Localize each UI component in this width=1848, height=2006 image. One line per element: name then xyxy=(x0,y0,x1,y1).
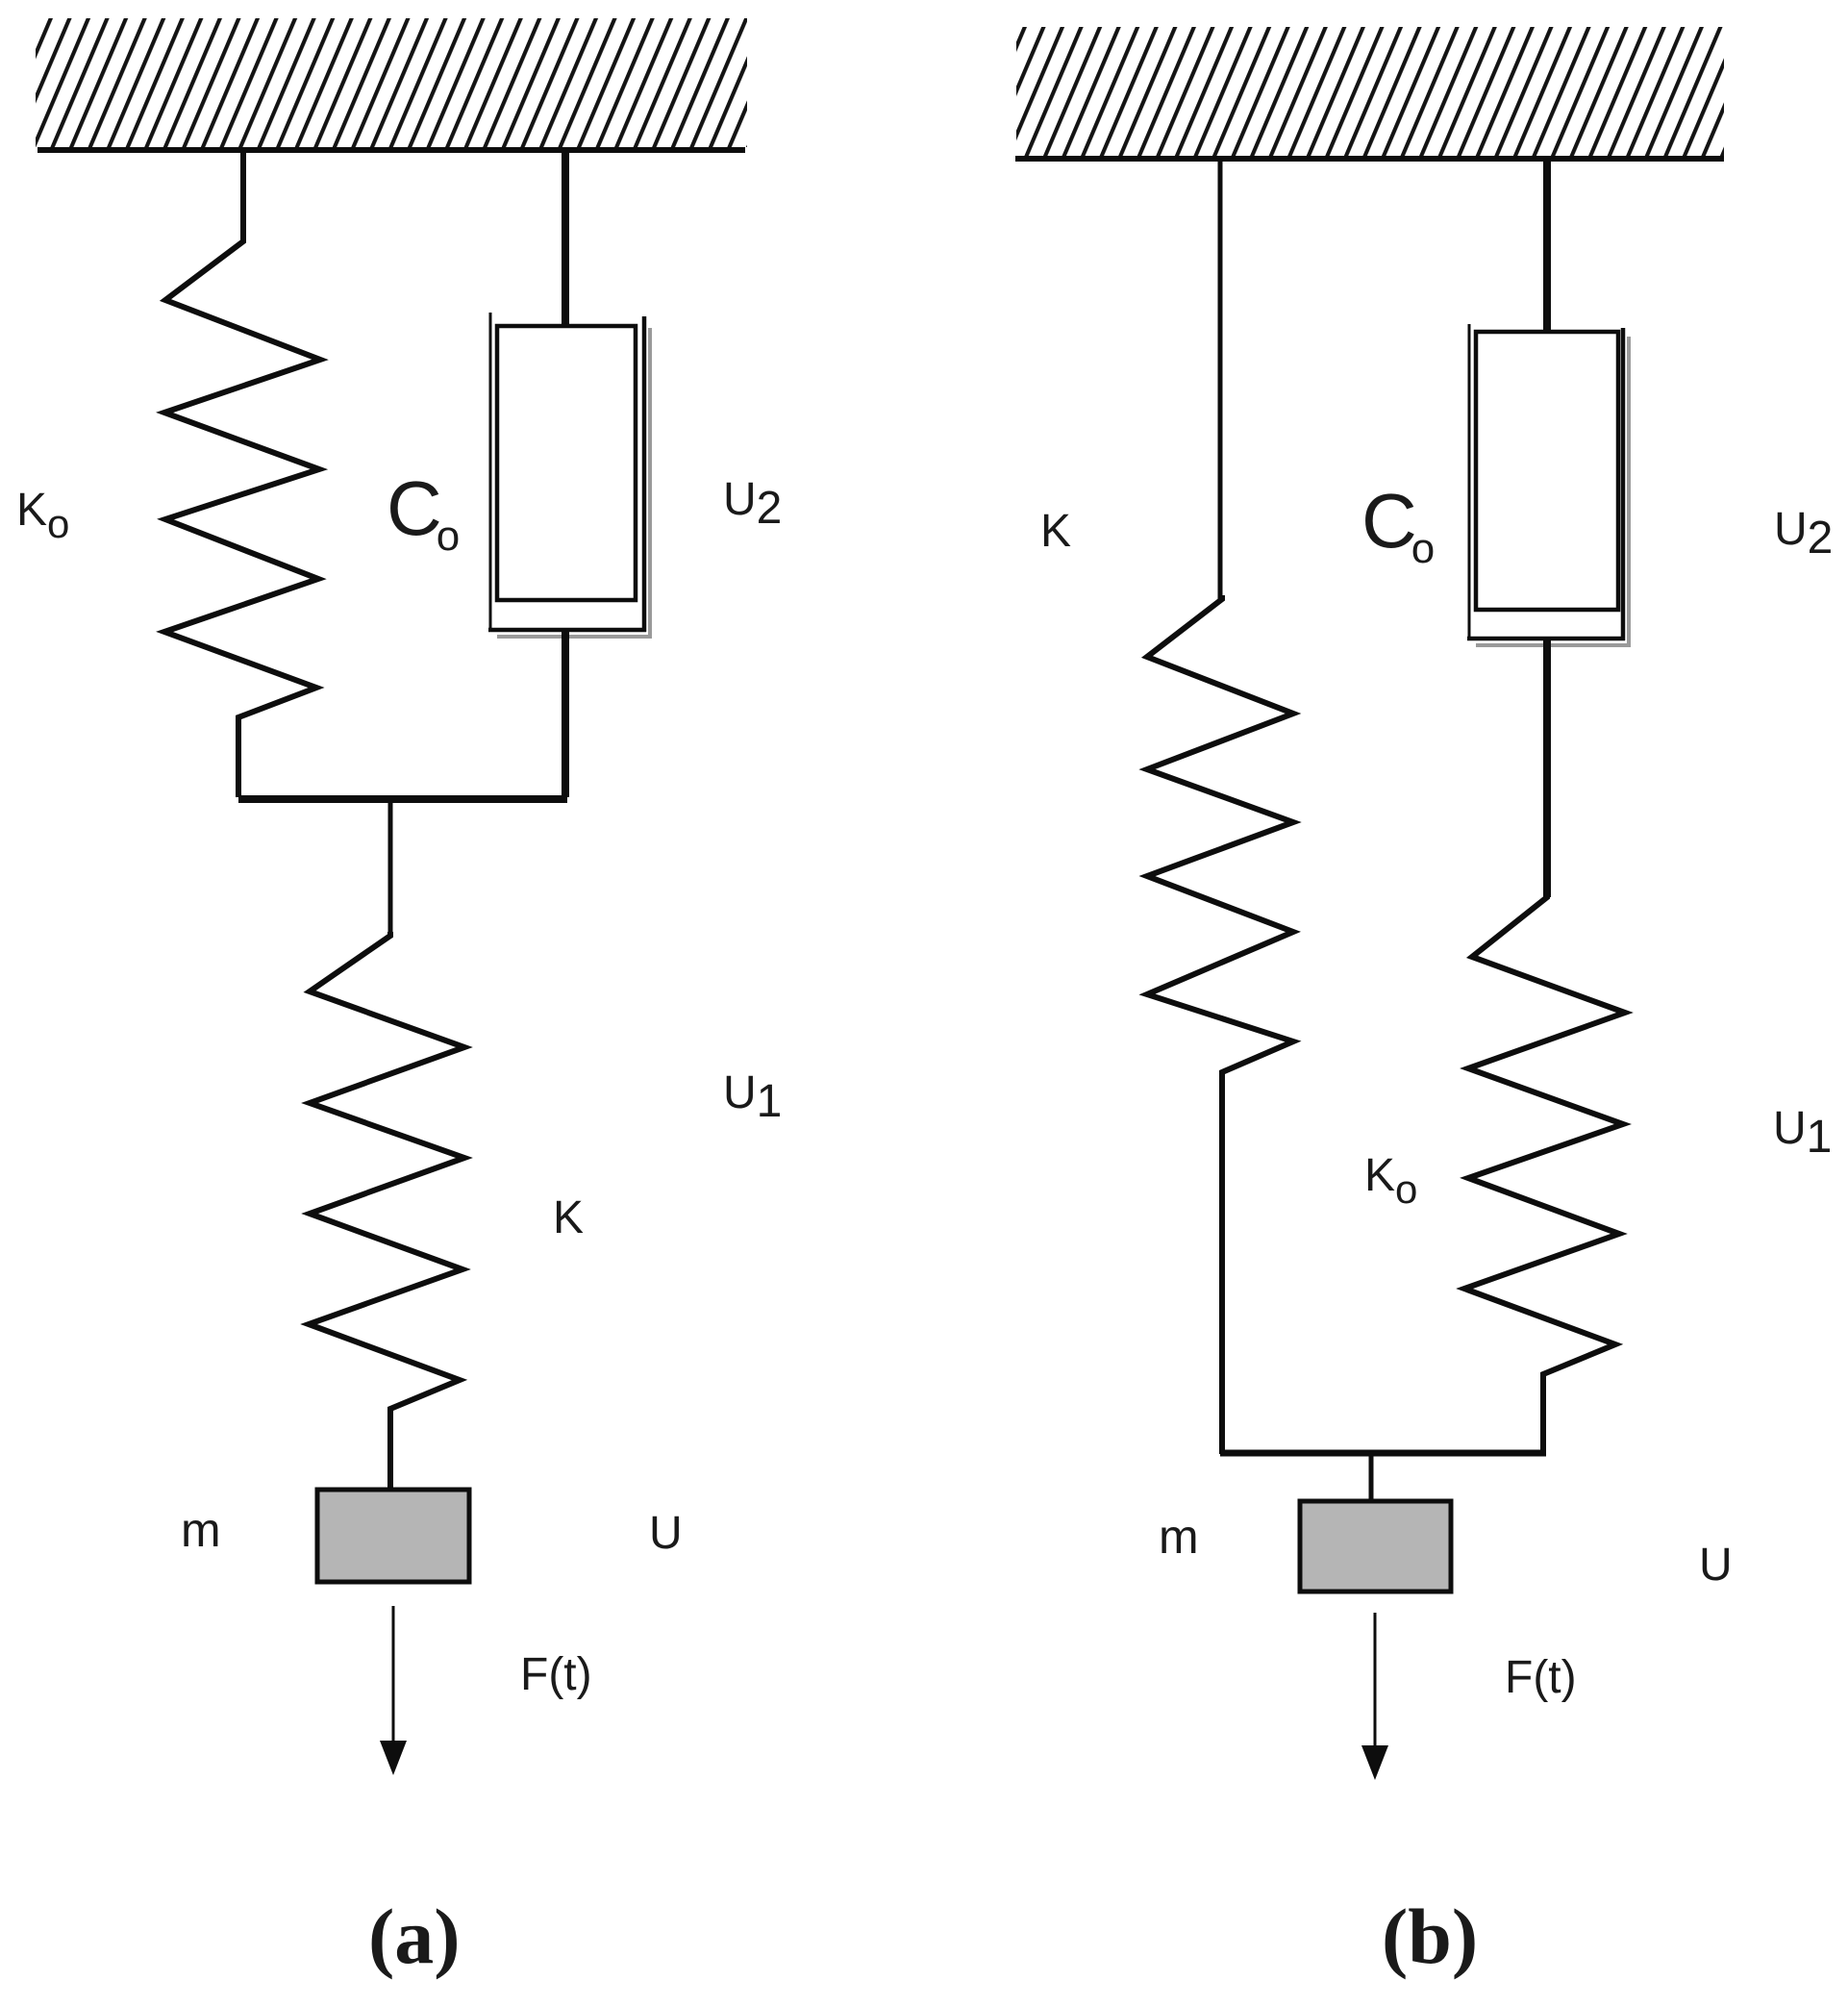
fixed support hatching (b) xyxy=(1016,27,1724,156)
svg-text:m: m xyxy=(181,1503,221,1557)
fixed support line (b) xyxy=(1015,156,1724,162)
stem wire (b) xyxy=(1369,1455,1374,1503)
svg-text:F(t): F(t) xyxy=(1505,1652,1577,1703)
svg-text:U1: U1 xyxy=(1773,1103,1832,1163)
svg-text:m: m xyxy=(1159,1510,1199,1564)
svg-text:U: U xyxy=(649,1508,683,1559)
svg-text:K: K xyxy=(553,1192,584,1243)
damper C0 bottom rod (b) xyxy=(1543,640,1551,897)
damper C0 cylinder shadow (b) xyxy=(1476,337,1629,645)
force arrow F(t) (a) xyxy=(392,1606,395,1743)
damper C0 top rod (b) xyxy=(1543,159,1551,333)
spring K (a) xyxy=(309,932,464,1492)
fixed support line (a) xyxy=(37,147,745,153)
svg-text:K: K xyxy=(1040,506,1071,557)
damper C0 cylinder shadow (a) xyxy=(497,328,650,637)
spring K top wire (b) xyxy=(1218,159,1223,599)
fixed support hatching (a) xyxy=(36,18,747,147)
svg-text:U2: U2 xyxy=(723,474,782,534)
svg-text:U2: U2 xyxy=(1774,504,1833,564)
svg-text:F(t): F(t) xyxy=(520,1649,592,1700)
damper C0 cylinder (a) xyxy=(489,313,492,632)
spring K0 (a) xyxy=(164,151,320,797)
stem wire (a) xyxy=(388,801,393,936)
spring K0 (b) xyxy=(1464,893,1625,1454)
svg-text:Ko: Ko xyxy=(16,485,69,546)
junction bar node (b) xyxy=(1220,1450,1546,1457)
mass m (b) xyxy=(1300,1501,1451,1592)
svg-text:Co: Co xyxy=(387,465,460,560)
spring K (b) xyxy=(1147,595,1293,1454)
damper C0 piston (a) xyxy=(497,326,636,600)
svg-text:Ko: Ko xyxy=(1364,1150,1417,1212)
junction bar node (a) xyxy=(238,795,567,803)
force arrow F(t) (b) xyxy=(1374,1613,1377,1747)
damper C0 top rod (a) xyxy=(562,151,569,325)
svg-text:U: U xyxy=(1699,1540,1733,1591)
damper C0 cylinder (b) xyxy=(1468,324,1471,640)
damper C0 bottom rod (a) xyxy=(562,632,569,797)
mass m (a) xyxy=(317,1490,469,1582)
damper C0 piston (b) xyxy=(1476,332,1618,610)
svg-text:U1: U1 xyxy=(723,1067,782,1127)
svg-text:(a): (a) xyxy=(368,1893,461,1980)
svg-text:Co: Co xyxy=(1361,478,1435,572)
svg-text:(b): (b) xyxy=(1382,1893,1478,1980)
